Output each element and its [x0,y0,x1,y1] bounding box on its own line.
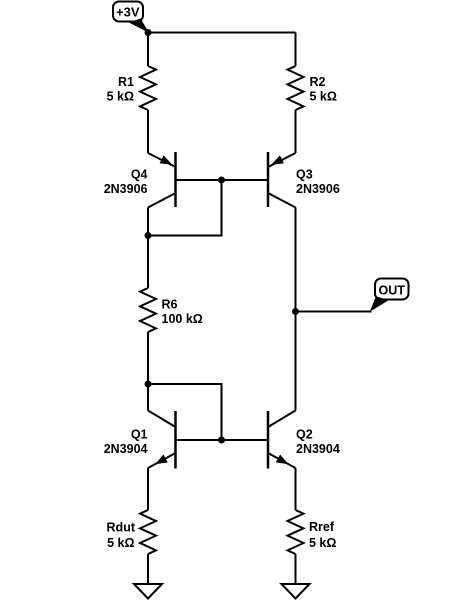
svg-text:100 kΩ: 100 kΩ [162,312,203,326]
wire Q1 emitter to Rdut [147,468,149,510]
node Q1 collector junction dot [145,381,152,388]
svg-text:5 kΩ: 5 kΩ [107,536,134,550]
transistor Q1 [104,411,176,469]
node VCC junction dot [145,29,152,36]
wire collector-to-base tie [148,384,222,440]
node OUT junction dot [292,308,299,315]
wire Q4 collector lead [147,208,149,236]
wire Q4 collector to R6 [147,236,149,289]
wire Q2 emitter to Rref [295,468,297,510]
node Q1 base junction dot [218,437,225,444]
wire OUT node to Q2 collector [295,312,297,411]
svg-text:2N3904: 2N3904 [296,442,340,456]
transistor Q4 [104,152,176,208]
wire Rdut to ground [147,554,149,584]
wire Q3 collector to OUT node [295,208,297,312]
resistor R6 [140,288,203,332]
svg-text:R2: R2 [310,75,326,89]
svg-text:5 kΩ: 5 kΩ [310,90,337,104]
wire Q1-Q2 base link [176,439,269,441]
resistor Rdut [107,510,156,554]
svg-text:5 kΩ: 5 kΩ [107,90,134,104]
transistor Q3 [268,152,340,208]
svg-text:R1: R1 [118,75,134,89]
svg-text:R6: R6 [162,298,178,312]
svg-text:2N3904: 2N3904 [104,442,148,456]
node Q4 base junction dot [218,177,225,184]
transistor Q2 [268,411,340,469]
svg-text:Q1: Q1 [131,428,148,442]
node Q4 collector junction dot [145,232,152,239]
wire R6 to Q1 collector node [147,332,149,384]
wire Q1 collector lead [147,384,149,411]
svg-text:Rref: Rref [309,520,335,534]
svg-text:+3V: +3V [116,5,140,20]
wire R1 top lead [147,33,149,67]
wire OUT stub [296,311,372,313]
svg-text:OUT: OUT [379,284,406,298]
resistor R2 [288,66,337,110]
wire base-to-collector tie [148,180,222,236]
wire Rref to ground [295,554,297,584]
svg-text:Q4: Q4 [131,168,148,182]
wire R1 to Q4 emitter [147,110,149,153]
ground left [134,584,162,599]
resistor R1 [107,66,156,110]
svg-text:2N3906: 2N3906 [296,182,340,196]
wire R2 to Q3 emitter [295,110,297,153]
wire top rail [148,32,296,34]
svg-text:Rdut: Rdut [107,521,136,535]
resistor Rref [288,510,337,554]
svg-text:Q3: Q3 [296,168,313,182]
wire Q4-Q3 base link [176,179,269,181]
svg-text:Q2: Q2 [296,428,313,442]
power +3V label [113,2,149,34]
wire R2 top lead [295,33,297,67]
ground right [282,584,310,599]
port OUT label [370,279,409,313]
svg-text:5 kΩ: 5 kΩ [309,536,336,550]
svg-text:2N3906: 2N3906 [104,182,148,196]
